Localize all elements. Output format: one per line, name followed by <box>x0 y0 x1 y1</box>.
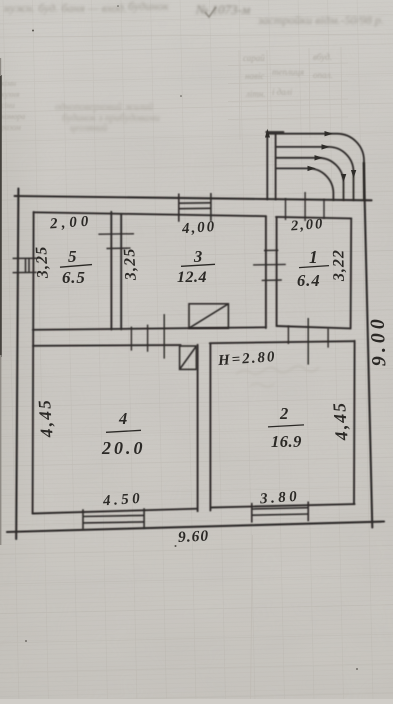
outer wall left <box>16 189 18 540</box>
svg-text:сіни: сіни <box>1 101 15 110</box>
wall between rooms 3 and 1, left line <box>265 216 267 328</box>
svg-text:3,25: 3,25 <box>33 245 52 280</box>
svg-text:будинок: будинок <box>128 0 169 13</box>
svg-text:3.80: 3.80 <box>258 489 300 508</box>
svg-text:комора: комора <box>1 112 25 121</box>
svg-text:9.00: 9.00 <box>367 315 391 367</box>
fraction bar room 5 <box>60 265 92 268</box>
room 4 top line (middle wall lower line) <box>33 344 181 347</box>
fraction bar room 3 <box>181 264 215 266</box>
wall between rooms 5 and 3, right line <box>120 214 122 330</box>
svg-text:9.60: 9.60 <box>178 527 210 546</box>
faint horizontal rule under header <box>0 34 393 37</box>
svg-text:разом: разом <box>0 123 21 132</box>
porch curve line 1 <box>268 134 364 200</box>
svg-text:сарай: сарай <box>243 53 265 63</box>
porch curve line 4 <box>276 168 334 200</box>
fraction bar room 2 <box>268 425 304 427</box>
svg-text:№ 1073-м: № 1073-м <box>195 2 250 17</box>
svg-text:навіс: навіс <box>245 71 264 81</box>
svg-text:4,45: 4,45 <box>34 397 57 439</box>
faint table cell text <box>243 52 333 99</box>
porch stair curve structure <box>266 132 364 201</box>
outer wall right <box>364 163 373 528</box>
svg-text:3,25: 3,25 <box>121 247 140 282</box>
door hatch between rooms 3 and 1 <box>253 250 286 280</box>
svg-text:вбуд.: вбуд. <box>313 52 332 62</box>
faint fold line bottom <box>251 535 253 699</box>
porch left vertical pair <box>267 132 275 200</box>
room 4 bottom line <box>33 509 198 514</box>
svg-text:нужн. буд. баня — вход.: нужн. буд. баня — вход. <box>4 1 127 15</box>
room 1 top line <box>276 217 351 219</box>
svg-text:застройки відм.-50/98 р.: застройки відм.-50/98 р. <box>257 13 384 27</box>
svg-text:2,00: 2,00 <box>289 216 324 234</box>
stove in room 3 <box>189 304 228 328</box>
svg-text:2: 2 <box>279 404 288 423</box>
porch cap line <box>266 131 283 133</box>
fraction bar room 4 <box>106 430 141 432</box>
faint table lines top right <box>228 47 348 140</box>
window W2 in bottom wall of room 2 <box>252 502 308 523</box>
svg-text:6.5: 6.5 <box>62 268 86 287</box>
svg-text:кімн: кімн <box>1 79 16 88</box>
entrance door hatch from porch to room 1 <box>286 192 325 221</box>
svg-text:5: 5 <box>68 247 77 266</box>
inner top wall line rooms 5 and 3 <box>34 212 266 216</box>
fraction bar room 1 <box>299 266 329 268</box>
porch arrows <box>265 129 356 182</box>
svg-text:4,45: 4,45 <box>329 400 352 442</box>
wall between rooms 5 and 3, left line <box>110 212 112 330</box>
room 2 top line <box>210 341 355 343</box>
svg-text:цегляний: цегляний <box>70 123 107 134</box>
outer wall bottom <box>7 522 384 533</box>
svg-text:3: 3 <box>193 247 202 266</box>
svg-text:одноповерховий жилий: одноповерховий жилий <box>55 102 153 113</box>
room 1 bottom line <box>277 326 351 328</box>
window W3 in top wall of room 3 <box>179 193 211 222</box>
window W4 in bottom wall of room 4 <box>83 508 144 529</box>
middle wall upper line <box>33 327 266 330</box>
svg-text:16.9: 16.9 <box>271 432 302 451</box>
svg-text:опал.: опал. <box>313 70 333 80</box>
svg-text:кухня: кухня <box>1 90 20 99</box>
window W5 in left wall of room 5 <box>13 258 37 272</box>
outer wall top <box>15 196 372 200</box>
small flue square in room 4 <box>180 346 197 369</box>
svg-text:теплиця: теплиця <box>272 67 304 77</box>
room 1 right wall <box>350 218 353 328</box>
wall between rooms 4 and 2, left line <box>197 345 199 511</box>
svg-text:4.50: 4.50 <box>101 491 143 510</box>
svg-text:6.4: 6.4 <box>297 271 321 290</box>
door hatch between room 3 and room 4 <box>131 314 164 359</box>
room 2 right wall <box>353 341 356 504</box>
faint left margin column text <box>0 79 25 132</box>
svg-text:і далі: і далі <box>272 87 293 97</box>
faded header handwriting strip <box>4 0 384 27</box>
svg-text:2,00: 2,00 <box>49 213 93 232</box>
porch curve line 3 <box>276 158 344 200</box>
porch curve line 2 <box>276 147 354 200</box>
door hatch between room 1 and room 2 <box>288 318 328 365</box>
faint bleed-through text block upper left <box>55 102 160 134</box>
svg-text:1: 1 <box>309 247 318 267</box>
room 2 bottom line <box>210 504 354 507</box>
door hatch between rooms 5 and 3 <box>98 234 134 249</box>
svg-text:літн.: літн. <box>245 89 266 99</box>
inner line of left wall <box>33 212 34 514</box>
faded checkmark top <box>205 7 216 17</box>
faint bleed-through scribble in room 2 <box>236 366 319 387</box>
svg-text:3,22: 3,22 <box>330 249 348 282</box>
dark photo edge left <box>0 75 2 357</box>
wall between rooms 4 and 2, right line <box>209 344 211 511</box>
svg-text:20.0: 20.0 <box>101 438 146 458</box>
svg-text:12.4: 12.4 <box>177 269 207 286</box>
wall between rooms 3 and 1, right line <box>276 217 278 326</box>
svg-text:4,00: 4,00 <box>180 219 216 237</box>
svg-text:4: 4 <box>118 409 127 428</box>
